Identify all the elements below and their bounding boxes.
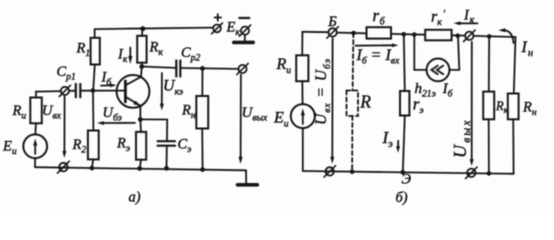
- svg-text:Iк: Iк: [463, 8, 475, 27]
- node Rk junction top (b): [487, 34, 492, 39]
- current arrow In (b): [498, 28, 533, 59]
- svg-text:Rк: Rк: [495, 99, 509, 116]
- svg-text:Rи: Rи: [276, 56, 292, 76]
- svg-text:Iб = Iвх: Iб = Iвх: [356, 47, 400, 67]
- node CS junction (b): [412, 32, 417, 37]
- supply terminal - with chassis bar: [234, 18, 253, 42]
- wire collector to output: [142, 67, 239, 69]
- voltage arrow Ube: [97, 105, 135, 125]
- svg-text:Cр2: Cр2: [181, 45, 200, 64]
- resistor re (b): [400, 34, 424, 172]
- svg-text:Rи: Rи: [12, 103, 27, 122]
- svg-text:rк′: rк′: [431, 8, 446, 28]
- resistor R1: [76, 29, 100, 91]
- svg-text:Cэ: Cэ: [178, 137, 192, 156]
- voltage arrow Uvh=Ube (b): [313, 38, 334, 163]
- svg-text:Uвых: Uвых: [450, 118, 473, 158]
- current arrow Ib (a): [101, 70, 117, 89]
- svg-text:Б: Б: [327, 14, 337, 30]
- ground chassis (a): [238, 170, 258, 185]
- terminal input bottom (b): [324, 166, 336, 177]
- resistor Re: [116, 119, 146, 171]
- svg-text:h21э Iб: h21э Iб: [415, 81, 454, 100]
- svg-text:Uвых: Uвых: [242, 105, 269, 124]
- current arrow Ik (a): [117, 47, 132, 66]
- svg-text:rб: rб: [373, 6, 386, 28]
- resistor Rk (b): [483, 36, 508, 175]
- svg-text:Iб: Iб: [101, 70, 113, 89]
- terminal output bottom (b): [466, 167, 478, 178]
- current arrow Ik (b): [454, 8, 478, 27]
- transistor VT (a): [117, 67, 150, 120]
- resistor Rk (a): [137, 26, 163, 66]
- svg-text:Rн: Rн: [522, 100, 537, 119]
- svg-text:Rк: Rк: [149, 40, 164, 59]
- svg-text:Cр1: Cр1: [57, 64, 76, 83]
- node collector junction (a): [139, 64, 144, 69]
- resistor rk' (b): [425, 8, 451, 40]
- node B' junction (b): [402, 32, 407, 37]
- svg-text:R: R: [359, 92, 371, 112]
- resistor rb (b): [367, 6, 392, 39]
- node Rn junction (a): [200, 66, 205, 71]
- terminal K (b): [464, 30, 476, 41]
- voltage arrow Uke: [160, 73, 183, 111]
- capacitor Cp2: [176, 45, 200, 77]
- node R junction bottom (b): [350, 170, 355, 175]
- resistor R2: [72, 91, 99, 171]
- resistor Rn (b): [508, 37, 537, 174]
- svg-text:Uвх = Uбэ: Uвх = Uбэ: [313, 58, 333, 125]
- svg-text:Iэ: Iэ: [382, 128, 394, 150]
- current arrow Ib=Ivh (b): [356, 43, 400, 66]
- svg-text:Eи: Eи: [273, 110, 289, 130]
- svg-text:Iк: Iк: [117, 47, 128, 66]
- wire bottom rail (b): [303, 171, 514, 174]
- terminal output top (a): [237, 63, 248, 74]
- svg-text:Eи: Eи: [2, 139, 17, 158]
- wire top supply rail (a): [95, 28, 213, 30]
- source Ei (a): [2, 134, 47, 167]
- voltage arrow Uvyh (a): [239, 75, 269, 164]
- source Ei (b): [273, 104, 315, 171]
- node emitter junction (a): [138, 117, 143, 122]
- svg-text:Uкэ: Uкэ: [163, 78, 183, 98]
- svg-text:R1: R1: [76, 41, 91, 60]
- svg-text:Rн: Rн: [181, 103, 196, 122]
- voltage arrow Uvh (a): [42, 96, 66, 158]
- resistor Ri (b): [276, 32, 309, 104]
- supply terminal + Ek: [212, 14, 241, 38]
- svg-text:Eк: Eк: [226, 20, 241, 39]
- resistor Rn (a): [181, 68, 208, 172]
- svg-text:Iн: Iн: [521, 39, 534, 59]
- svg-text:Uвх: Uвх: [42, 103, 62, 122]
- wire bottom rail (a): [35, 167, 246, 170]
- node base junction (a): [91, 88, 96, 93]
- voltage arrow Uvyh (b): [450, 42, 474, 166]
- svg-text:Uбэ: Uбэ: [103, 105, 122, 124]
- capacitor Ce: [140, 119, 191, 170]
- svg-text:Rэ: Rэ: [116, 136, 130, 155]
- terminal input top (a): [59, 85, 70, 96]
- node E junction (b): [400, 170, 411, 188]
- svg-text:R2: R2: [72, 137, 87, 156]
- wire top rail (b): [302, 32, 515, 37]
- wire input (a): [36, 91, 124, 92]
- node R junction top (b): [351, 31, 356, 36]
- current source h21e Ib (b): [414, 33, 460, 99]
- svg-text:а): а): [129, 190, 141, 206]
- resistor Ri (a): [12, 92, 42, 135]
- terminal input bottom (a): [58, 161, 70, 173]
- svg-text:Э: Э: [402, 172, 412, 188]
- terminal B (b): [327, 14, 339, 38]
- svg-text:б): б): [396, 190, 408, 206]
- resistor R (b) dashed: [347, 33, 359, 172]
- capacitor Cp1: [57, 64, 81, 97]
- current arrow Ie (b): [382, 128, 401, 153]
